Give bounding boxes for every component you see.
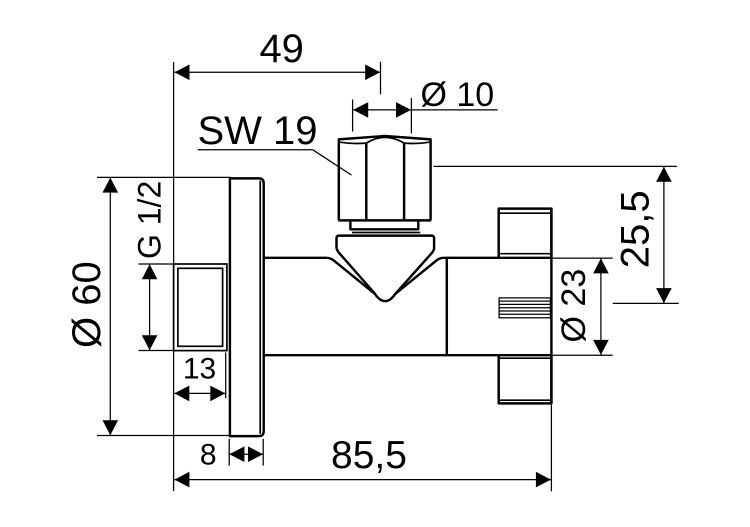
- valve body top edge left: [264, 257, 328, 259]
- hex facet line left: [365, 143, 367, 220]
- dimension 85,5 arrow left: [174, 472, 189, 488]
- thread G1/2 outer: [174, 264, 227, 351]
- svg-text:85,5: 85,5: [331, 434, 407, 477]
- dimension 49 arrow left: [175, 65, 190, 81]
- dimension O10 line: [353, 109, 498, 111]
- outlet right edge: [550, 209, 552, 404]
- svg-text:Ø 60: Ø 60: [65, 261, 109, 348]
- dimension G1/2 extension top: [139, 263, 174, 265]
- dimension 25,5 extension bottom: [613, 302, 679, 304]
- dimension 25,5 arrow down: [656, 288, 672, 303]
- wall flange: [230, 178, 264, 436]
- hex knob bottom edge: [338, 219, 431, 221]
- outlet top flange inner bottom line: [499, 253, 552, 255]
- svg-text:Ø 23: Ø 23: [555, 269, 593, 343]
- dimension O23 arrow down: [593, 340, 609, 355]
- hex chamfer arc left: [340, 142, 366, 143]
- bonnet: [337, 236, 435, 250]
- outlet bottom flange: [499, 355, 552, 403]
- dimension O23 arrow up: [593, 258, 609, 273]
- dimension 85,5 line: [174, 479, 551, 481]
- dimension 8 arrow left: [229, 446, 244, 462]
- dimension G1/2 line: [149, 264, 151, 350]
- dimension 8 arrow right: [248, 446, 263, 462]
- svg-text:13: 13: [183, 353, 216, 386]
- label SW 19 leader: [313, 150, 352, 175]
- outlet bottom flange inner top line: [499, 357, 552, 359]
- knurl band: [499, 298, 550, 318]
- svg-text:SW 19: SW 19: [197, 109, 317, 153]
- svg-text:8: 8: [200, 439, 217, 472]
- dimension 13 arrow right: [210, 386, 225, 402]
- dimension O23 extension bottom: [552, 354, 613, 356]
- dimension 49 arrow right: [365, 65, 380, 81]
- dimension O60 arrow up: [103, 178, 119, 193]
- svg-text:25,5: 25,5: [614, 190, 658, 268]
- dimension 25,5 line: [663, 167, 665, 303]
- dimension 8 line: [229, 453, 263, 455]
- dimension O60 arrow down: [103, 420, 119, 435]
- label SW 19 underline: [198, 149, 313, 151]
- dimension O60 line: [109, 178, 111, 436]
- valve body bottom edge: [264, 354, 551, 356]
- collar lower ring line: [352, 232, 420, 234]
- hex chamfer arc middle: [366, 137, 404, 143]
- dimension 8 extension right: [262, 439, 264, 466]
- dimension 85,5 arrow right: [536, 472, 551, 488]
- outlet bottom flange inner bottom line: [499, 399, 552, 401]
- dimension 25,5 arrow up: [656, 167, 672, 182]
- hex knob SW19 silhouette: [339, 136, 431, 220]
- outlet top flange: [499, 209, 552, 258]
- cone outer contour: [327, 258, 443, 301]
- hex chamfer arc right: [404, 142, 429, 143]
- dimension O10 extension right: [410, 98, 412, 134]
- dimension O60 extension top: [97, 176, 231, 178]
- dimension 49 right extension: [380, 62, 382, 95]
- dimension G1/2 arrow up: [142, 264, 158, 279]
- dimension O10 extension left: [352, 100, 354, 132]
- dimension O10 arrow left: [353, 102, 368, 118]
- outlet top flange inner top line: [499, 212, 552, 214]
- cone inner line right: [395, 249, 434, 294]
- dimension 8 extension left: [228, 439, 230, 466]
- svg-text:49: 49: [259, 27, 304, 71]
- svg-text:Ø 10: Ø 10: [420, 76, 494, 114]
- body-outlet boundary: [446, 258, 448, 355]
- hex facet line right: [403, 143, 405, 220]
- collar ring under hex: [350, 222, 418, 230]
- dimension O10 arrow right: [396, 102, 411, 118]
- dimension O23 extension top: [552, 257, 613, 259]
- wall flange inner edge line: [259, 181, 261, 434]
- dimension 25,5 extension top: [434, 165, 677, 167]
- dimension 49 line: [175, 71, 381, 73]
- valve body top edge right: [443, 257, 551, 259]
- thread G1/2 inner: [178, 268, 223, 346]
- dimension 85,5 right extension: [550, 403, 552, 491]
- dimension O23 line: [600, 259, 602, 355]
- dimension 13 arrow left: [174, 386, 189, 402]
- knurl lines: [499, 301, 550, 314]
- svg-text:G 1/2: G 1/2: [132, 181, 168, 259]
- dimension 13 line: [174, 392, 225, 394]
- dimension G1/2 arrow down: [142, 335, 158, 350]
- dimension O60 extension bottom: [97, 435, 231, 437]
- cone inner line left: [337, 249, 376, 294]
- dimension G1/2 extension bottom: [139, 350, 174, 352]
- dimension 13 extension right: [225, 353, 227, 399]
- wall datum extension line: [173, 62, 175, 491]
